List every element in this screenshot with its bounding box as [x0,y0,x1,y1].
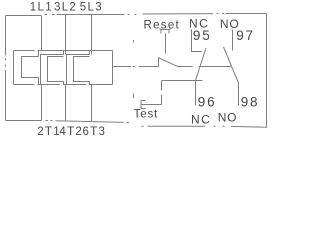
svg-text:1L1: 1L1 [30,1,53,13]
svg-text:96: 96 [198,94,217,109]
svg-text:2T1: 2T1 [37,126,61,138]
svg-text:NO: NO [218,111,238,125]
svg-text:Test: Test [134,108,159,120]
svg-text:98: 98 [241,94,260,109]
svg-text:NC: NC [191,112,211,126]
svg-text:5L3: 5L3 [80,1,103,13]
svg-text:Reset: Reset [144,19,181,31]
svg-text:6T3: 6T3 [83,126,107,138]
svg-text:97: 97 [236,28,255,43]
svg-text:3L2: 3L2 [54,1,77,13]
svg-text:4T2: 4T2 [59,126,83,138]
svg-text:95: 95 [193,28,212,43]
